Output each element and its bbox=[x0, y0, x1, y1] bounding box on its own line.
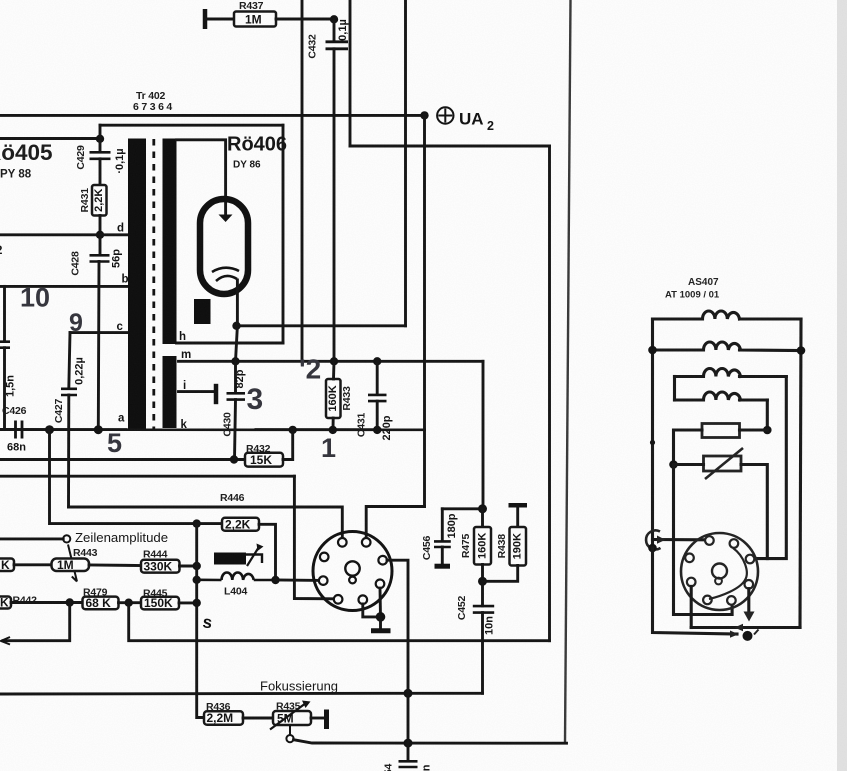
wire connector line to P1 bbox=[653, 538, 706, 541]
wire Ro406 anode feed from winding top bbox=[177, 140, 226, 214]
resistor R433 bbox=[326, 379, 341, 418]
wire riser x294.4 to socket E bbox=[294, 476, 333, 599]
wire R left lead bbox=[674, 430, 703, 465]
arrow head bottom line bbox=[730, 631, 739, 638]
wire P5 down to bottom line bbox=[690, 586, 693, 627]
wire K box to R443 bbox=[14, 563, 52, 566]
wire riser x49.5 down to 2,2K line bbox=[50, 430, 197, 524]
wire C431 top stem bbox=[376, 361, 379, 394]
wire R444 to riser bbox=[180, 565, 197, 568]
coil L-d inner bottom bbox=[675, 392, 768, 400]
wire riser x4.5 from b line bbox=[3, 286, 6, 341]
anode plate Ro406 bbox=[219, 215, 233, 223]
socket pin D bbox=[319, 576, 328, 585]
wire C454 stem bbox=[407, 743, 410, 761]
wire horizontal y146 bbox=[350, 145, 550, 148]
socket main circle bbox=[313, 532, 392, 611]
wire R438 top stem bbox=[516, 505, 519, 527]
node junction connector bbox=[648, 544, 657, 553]
wire b line y286.4 bbox=[0, 285, 128, 288]
socket center key dot bbox=[349, 577, 356, 584]
wire cathode lead down bbox=[236, 280, 238, 361]
capacitor C454 bbox=[399, 761, 418, 767]
terminal bar R438 top bbox=[509, 503, 528, 508]
wire bottom y640.7 main bbox=[129, 603, 550, 641]
wire riser x4.5 lower bbox=[3, 348, 6, 430]
resistor R right block bbox=[702, 424, 740, 438]
node junction therm left bbox=[669, 460, 678, 469]
socket key curve bbox=[709, 548, 747, 599]
wire R431 to d node bbox=[99, 216, 102, 236]
wire R479 to R445 bbox=[119, 601, 142, 604]
node dot bottom end bbox=[743, 631, 753, 641]
wire d line y235 bbox=[0, 233, 128, 236]
node junction R445 right riser bbox=[193, 599, 201, 607]
socket center hole bbox=[345, 561, 359, 575]
resistor R446 2,2K bbox=[222, 518, 259, 531]
wire R432 line y459.5 bbox=[0, 458, 245, 461]
wire bottom P5 line to right edge bbox=[691, 626, 800, 629]
heater block Ro406 bbox=[194, 299, 211, 324]
resistor R444 bbox=[141, 560, 180, 573]
wire R446 line y476.2 bbox=[0, 475, 294, 478]
thermistor block bbox=[704, 456, 742, 471]
capacitor C456 bbox=[434, 541, 451, 547]
pot arrow R435 bbox=[270, 703, 306, 730]
capacitor C430 bbox=[227, 393, 246, 399]
wire R475 bottom stem bbox=[481, 565, 484, 582]
core slug L404 bbox=[214, 553, 246, 565]
socket pin P7 bbox=[727, 596, 736, 605]
terminal UA2 circle-plus bbox=[437, 107, 453, 123]
socket pin C bbox=[320, 553, 329, 562]
node junction d bbox=[96, 231, 104, 239]
node junction R right bbox=[763, 426, 772, 435]
capacitor 1,5n left edge bbox=[0, 342, 10, 348]
resistor R445 bbox=[141, 597, 179, 610]
wire h pin lead y343 bbox=[177, 342, 284, 345]
wire C430 stem bbox=[234, 361, 237, 393]
wire pin H to x408 bbox=[387, 560, 408, 743]
node junction R437/C432 bbox=[330, 15, 338, 23]
node junction cathode y325.8 bbox=[232, 322, 240, 330]
wire C432 top stem bbox=[333, 19, 336, 41]
wire C456 stem bottom bbox=[441, 547, 444, 564]
wire outer left edge bbox=[651, 319, 654, 548]
socket pin P1 bbox=[705, 536, 714, 545]
socket pin E bbox=[334, 595, 343, 604]
thermistor arrow bbox=[705, 448, 743, 479]
resistor R437 bbox=[234, 12, 276, 27]
terminal bar R435 right bbox=[324, 710, 329, 730]
resistor R432 bbox=[245, 453, 283, 467]
wire top supply horizontal y115 bbox=[0, 114, 425, 117]
node junction L404 left riser bbox=[193, 576, 201, 584]
capacitor C427 bbox=[61, 389, 77, 395]
wire therm/R left down to P7 line bbox=[674, 465, 733, 615]
transformer secondary bar upper bbox=[163, 139, 177, 345]
node junction R479 left bbox=[66, 598, 74, 606]
capacitor C429 bbox=[90, 152, 111, 159]
wire C430 bottom to R432 line bbox=[235, 400, 236, 460]
wire vertical x549 down bbox=[548, 146, 551, 641]
wire R433 bottom stem bbox=[332, 418, 335, 430]
socket pin P6 bbox=[703, 596, 712, 605]
node junction C431 bottom node1 bbox=[373, 426, 381, 434]
socket pin P5 bbox=[687, 578, 696, 587]
wire vertical feed x302 top bbox=[301, 0, 304, 361]
node junction R445 left bbox=[125, 599, 133, 607]
tick on bottom line bbox=[754, 630, 759, 635]
core bracket L404 bbox=[246, 555, 262, 564]
wire R445 to riser bbox=[179, 601, 197, 604]
wire Zeilenamplitude wiper line bbox=[0, 537, 63, 540]
socket pin P2 bbox=[730, 539, 739, 548]
wire focus vertical x567 (gray) bbox=[565, 0, 571, 743]
wire pin G to ground bbox=[379, 588, 382, 617]
socket pin G bbox=[376, 580, 385, 589]
resistor box K left edge (R441?) bbox=[0, 559, 14, 572]
node junction m-line C430 top bbox=[231, 357, 239, 365]
wire R433 top stem bbox=[332, 361, 335, 379]
wire C427 line y507 to socket A bbox=[69, 507, 343, 538]
node junction m-line R433 top bbox=[330, 357, 338, 365]
resistor R435 pot bbox=[273, 711, 311, 725]
wire R446 right lead down bbox=[259, 524, 276, 580]
wire C456 stem top bbox=[441, 509, 444, 541]
wire 2,2K left lead bbox=[197, 522, 222, 525]
wire left edge bottom bbox=[653, 548, 738, 634]
socket pin A bbox=[338, 538, 347, 547]
wire left stub arrow net bbox=[3, 603, 70, 641]
wire R436 to R435 bbox=[243, 717, 273, 720]
wire Tr402 box right edge bbox=[282, 125, 285, 343]
wire riser x196.7 bbox=[197, 524, 204, 718]
resistor R431 bbox=[92, 185, 107, 216]
wire P8 stub down bbox=[747, 589, 750, 612]
node junction R475 top bbox=[478, 504, 487, 513]
wiper circle R435 bbox=[286, 735, 293, 742]
wire R432 right riser bbox=[283, 430, 293, 460]
wire wiper to focus line bbox=[294, 740, 567, 744]
wire R435 right lead bbox=[311, 717, 324, 720]
transformer core dashed line bbox=[152, 139, 155, 429]
capacitor C428 bbox=[90, 255, 110, 261]
wire L404 to socket pin D bbox=[276, 579, 320, 582]
wire pin F to ground bbox=[363, 604, 381, 617]
wire R443 to R444 bbox=[89, 564, 141, 567]
coil L-b second line bbox=[653, 342, 802, 351]
wire C432 bottom stem to node2 bbox=[333, 49, 336, 362]
wire horizontal cathode y325.8 bbox=[236, 324, 406, 327]
wire C452 bottom to focus line bbox=[481, 613, 484, 694]
wire m line y361.3 node 2 bbox=[179, 360, 484, 363]
node junction UA2 bbox=[420, 111, 428, 119]
transformer Tr402 primary bar bbox=[128, 139, 146, 429]
wire C452 top stem bbox=[481, 581, 484, 606]
wire m-net corner down x483 bbox=[482, 361, 485, 508]
socket right center hole bbox=[712, 564, 727, 579]
transformer secondary bar lower bbox=[163, 356, 177, 428]
resistor R436 bbox=[204, 711, 243, 724]
node junction ground bbox=[376, 612, 386, 622]
resistor R479 bbox=[83, 597, 119, 610]
node junction second line right bbox=[797, 346, 806, 355]
wire coil-d right down x767 bbox=[766, 400, 769, 430]
node junction C428 bottom on a line bbox=[94, 425, 103, 434]
socket pin F bbox=[359, 595, 368, 604]
socket pin P3 bbox=[746, 555, 755, 564]
wiper circle R443 bbox=[63, 535, 70, 542]
node small dot left edge bbox=[650, 440, 655, 445]
node junction L404 right bbox=[271, 576, 279, 584]
node junction R444 right bbox=[193, 562, 201, 570]
arrow head P8 plug bbox=[744, 612, 755, 622]
connector arc left bbox=[646, 530, 660, 549]
wiper stub R435 bbox=[289, 725, 291, 735]
arrow head left stub bbox=[1, 637, 10, 645]
wire R442 line left bbox=[11, 601, 83, 604]
socket right circle bbox=[681, 533, 758, 610]
node junction R432 left bbox=[230, 455, 238, 463]
wire Fokussierung line y693.5 bbox=[0, 692, 483, 696]
wire c line y332.6 bbox=[70, 331, 128, 334]
scanner edge band right bbox=[837, 0, 847, 771]
resistor R475 bbox=[474, 527, 491, 565]
node junction m-line C431 top bbox=[373, 357, 381, 365]
resistor box K left edge R442 row bbox=[0, 597, 11, 609]
wire R438 bottom to R475 node bbox=[483, 566, 518, 582]
node junction at box left edge bbox=[96, 135, 104, 143]
core arrow L404 bbox=[247, 546, 260, 566]
wire C427 riser bottom crossing to y507 bbox=[67, 395, 70, 507]
ground bar bbox=[371, 628, 391, 633]
socket right key circle bbox=[715, 578, 722, 585]
terminal bar l stub bbox=[214, 384, 219, 404]
wiper arrow R443 bbox=[68, 545, 77, 582]
ground stem bbox=[379, 617, 382, 630]
node junction wiper line x408 bbox=[404, 739, 413, 748]
wire C428 down to a line bbox=[97, 262, 101, 430]
wire vertical x405 top (cathode net) bbox=[404, 0, 407, 326]
wire R437 left lead bbox=[205, 18, 234, 21]
capacitor C431 bbox=[368, 395, 387, 401]
arrow head on P6 line bbox=[735, 624, 744, 631]
resistor R438 bbox=[510, 527, 527, 566]
wire d to C428 bbox=[99, 235, 102, 255]
resistor R443 pot body bbox=[52, 559, 90, 572]
socket pin P8 bbox=[745, 580, 754, 589]
wire left edge segment down from corner bbox=[99, 125, 102, 152]
ground bar C456 bbox=[435, 564, 451, 569]
wire R475 top stem bbox=[481, 509, 484, 527]
coil L-c inner top bbox=[675, 368, 787, 376]
coil L-a top bbox=[653, 311, 802, 319]
wire main a/node1 line y429.5 bbox=[0, 428, 425, 431]
wire Tr402 box top edge bbox=[100, 124, 283, 127]
capacitor C432 bbox=[326, 42, 349, 49]
node junction 2,2K line riser top bbox=[193, 519, 201, 527]
wire l pin stub bbox=[179, 390, 215, 393]
node junction Fokussierung x408 bbox=[404, 689, 413, 698]
socket pin B bbox=[362, 538, 371, 547]
node junction R475 bottom bbox=[478, 577, 487, 586]
wire C429 to R431 bbox=[99, 159, 102, 185]
socket pin P4 bbox=[685, 554, 694, 563]
arrow head connector bbox=[657, 536, 666, 544]
wire Ro405 anode line y138.5 bbox=[0, 137, 100, 140]
wire C431 bottom stem bbox=[376, 401, 379, 430]
wire vertical x350 top bbox=[349, 0, 352, 146]
wire UA2 vertical feed x424.5 bbox=[423, 115, 426, 506]
wire R437 right lead bbox=[276, 18, 334, 21]
capacitor C452 bbox=[473, 606, 494, 613]
terminal bar R437 left bbox=[203, 9, 208, 29]
cathode Ro406 arcs bbox=[212, 268, 239, 281]
wire outer right edge bbox=[800, 319, 801, 628]
node junction R433 bottom node1 bbox=[329, 426, 337, 434]
wire socket B riser to UA2 net bbox=[366, 507, 424, 539]
wire C456 horizontal to node bbox=[442, 507, 482, 510]
wire therm right lead down to P3 line bbox=[741, 465, 767, 559]
capacitor C426 bbox=[16, 421, 23, 439]
inductor L404 bbox=[197, 573, 276, 581]
wire inner loop left bbox=[673, 377, 676, 401]
wire C427 riser top bbox=[69, 333, 70, 389]
wire therm left lead bbox=[674, 463, 704, 466]
wire R right lead bbox=[740, 428, 768, 431]
socket pin H bbox=[378, 556, 387, 565]
wire inner right x786 down to P3 bbox=[754, 377, 786, 559]
node junction C426/right bbox=[45, 425, 54, 434]
scan noise overlay bbox=[0, 0, 1, 1]
node junction R432 riser top bbox=[289, 426, 297, 434]
tube Ro406 envelope bbox=[200, 199, 248, 294]
node junction second line left bbox=[648, 346, 657, 355]
